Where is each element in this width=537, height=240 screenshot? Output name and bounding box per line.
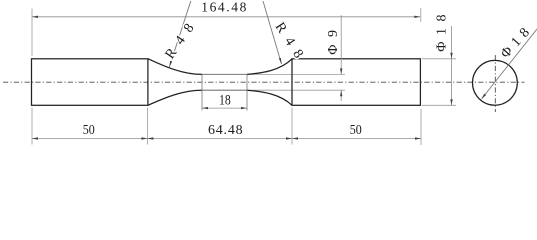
svg-text:64.48: 64.48 <box>208 123 244 138</box>
svg-text:Φ18: Φ18 <box>498 21 536 61</box>
svg-text:R48: R48 <box>163 15 202 62</box>
svg-text:164.48: 164.48 <box>201 0 248 14</box>
svg-text:Φ9: Φ9 <box>326 22 341 54</box>
svg-text:50: 50 <box>83 123 95 138</box>
svg-text:50: 50 <box>350 123 362 138</box>
svg-text:Φ18: Φ18 <box>434 8 449 52</box>
svg-text:18: 18 <box>219 92 231 108</box>
